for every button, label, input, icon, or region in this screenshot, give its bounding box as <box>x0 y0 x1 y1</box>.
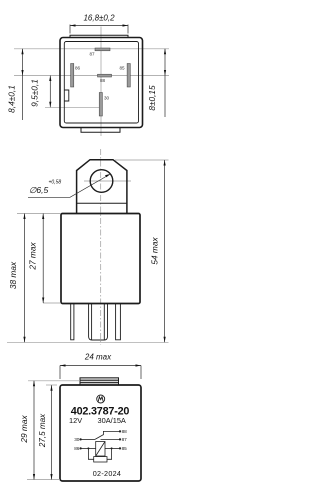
extension line bracket top (54 max) <box>115 159 169 161</box>
dimension 27 max <box>42 214 44 304</box>
svg-text:12V: 12V <box>69 416 82 425</box>
manufacturer logo <box>97 395 105 403</box>
svg-text:87: 87 <box>122 437 128 442</box>
pin slot 86 <box>71 64 74 88</box>
wire coil to 85 <box>105 447 120 449</box>
wire 30 to switch arm <box>81 438 95 440</box>
resistor R <box>94 457 107 462</box>
dimension 54 max <box>164 160 166 342</box>
svg-text:16,8±0,2: 16,8±0,2 <box>83 14 115 23</box>
resistor branch right <box>107 448 112 459</box>
relay housing outer contour (top view) <box>60 38 143 128</box>
mounting hole Ø6,5 <box>90 170 113 193</box>
pin slot 30 <box>99 93 102 117</box>
svg-text:54 max: 54 max <box>149 237 159 265</box>
pin 3 (side view) <box>116 304 121 340</box>
svg-text:38 max: 38 max <box>8 261 18 289</box>
extension tick 27,5 top <box>46 384 57 386</box>
svg-text:27,5 max: 27,5 max <box>38 413 47 448</box>
leader line for Ø6,5 <box>28 175 110 198</box>
junction node 86 branch <box>87 447 89 449</box>
svg-text:29 max: 29 max <box>19 415 29 444</box>
svg-text:30A/15A: 30A/15A <box>98 416 126 425</box>
mounting bracket outline <box>77 160 127 214</box>
svg-text:86: 86 <box>74 446 80 451</box>
pin slot 85 <box>127 64 130 88</box>
centerline vertical (side view) <box>100 149 102 345</box>
extension line upper (pin 87 axis) <box>14 48 169 50</box>
svg-text:86: 86 <box>75 66 81 71</box>
pin slot 88 <box>98 74 112 77</box>
resistor branch left <box>88 448 93 459</box>
dimension 8±0,15 (right) <box>164 49 166 117</box>
wire 86 to coil <box>81 447 96 449</box>
svg-text:∅6,5: ∅6,5 <box>29 185 48 195</box>
relay body (side view) <box>61 214 140 304</box>
dimension 9,5±0,1 (left inner) <box>49 76 51 108</box>
svg-text:27 max: 27 max <box>28 242 38 271</box>
svg-text:30: 30 <box>74 437 80 442</box>
svg-text:+0,58: +0,58 <box>49 180 62 186</box>
svg-text:87: 87 <box>89 52 95 57</box>
svg-text:88: 88 <box>100 78 106 83</box>
centerline horizontal (top view) <box>14 75 169 77</box>
dimension 27,5 max <box>51 385 53 479</box>
housing bottom lip <box>81 128 120 133</box>
dimension 38 max <box>24 214 26 343</box>
extension line lower (pin 30 axis) <box>45 106 101 108</box>
hole horizontal centerline <box>84 180 131 182</box>
svg-text:9,5±0,1: 9,5±0,1 <box>29 79 39 107</box>
extension line bottom (pin tips) <box>7 341 169 343</box>
svg-text:02-2024: 02-2024 <box>93 469 121 478</box>
centerline vertical (top view) <box>100 27 102 137</box>
extension line body top (left) <box>17 213 61 215</box>
housing top lip (16.8 width feature) <box>70 35 128 37</box>
wire 87 contact <box>101 438 121 440</box>
svg-text:8,4±0,1: 8,4±0,1 <box>7 85 17 113</box>
svg-text:30: 30 <box>104 96 110 101</box>
extension line front bottom <box>27 479 60 481</box>
junction node 85 branch <box>111 447 113 449</box>
dimension 16,8±0,2 (top) <box>70 25 128 34</box>
svg-text:24 max: 24 max <box>84 353 112 362</box>
extension line body bottom (left) <box>43 302 61 304</box>
dimension 29 max <box>33 381 35 480</box>
coil K <box>96 442 105 457</box>
svg-text:85: 85 <box>119 66 125 71</box>
pin 1 (side view) <box>71 304 74 340</box>
switch arm <box>95 435 103 440</box>
housing inner wall (top view) <box>64 42 138 124</box>
svg-text:8±0,15: 8±0,15 <box>147 85 157 111</box>
extension line tab top (29 max) <box>28 380 80 382</box>
wire contact to 88 <box>103 431 120 435</box>
relay body (front view) <box>60 385 141 481</box>
bracket shoulder line <box>77 202 127 204</box>
bracket tab (front view, edge-on) <box>80 378 119 385</box>
svg-text:85: 85 <box>122 446 128 451</box>
dimension 8,4±0,1 (left outer) <box>22 49 24 120</box>
pin slot 87 <box>95 48 110 51</box>
svg-text:88: 88 <box>122 429 128 434</box>
pin 2 wide blade (side view) <box>89 304 108 341</box>
keying notch inner left wall <box>64 90 69 101</box>
